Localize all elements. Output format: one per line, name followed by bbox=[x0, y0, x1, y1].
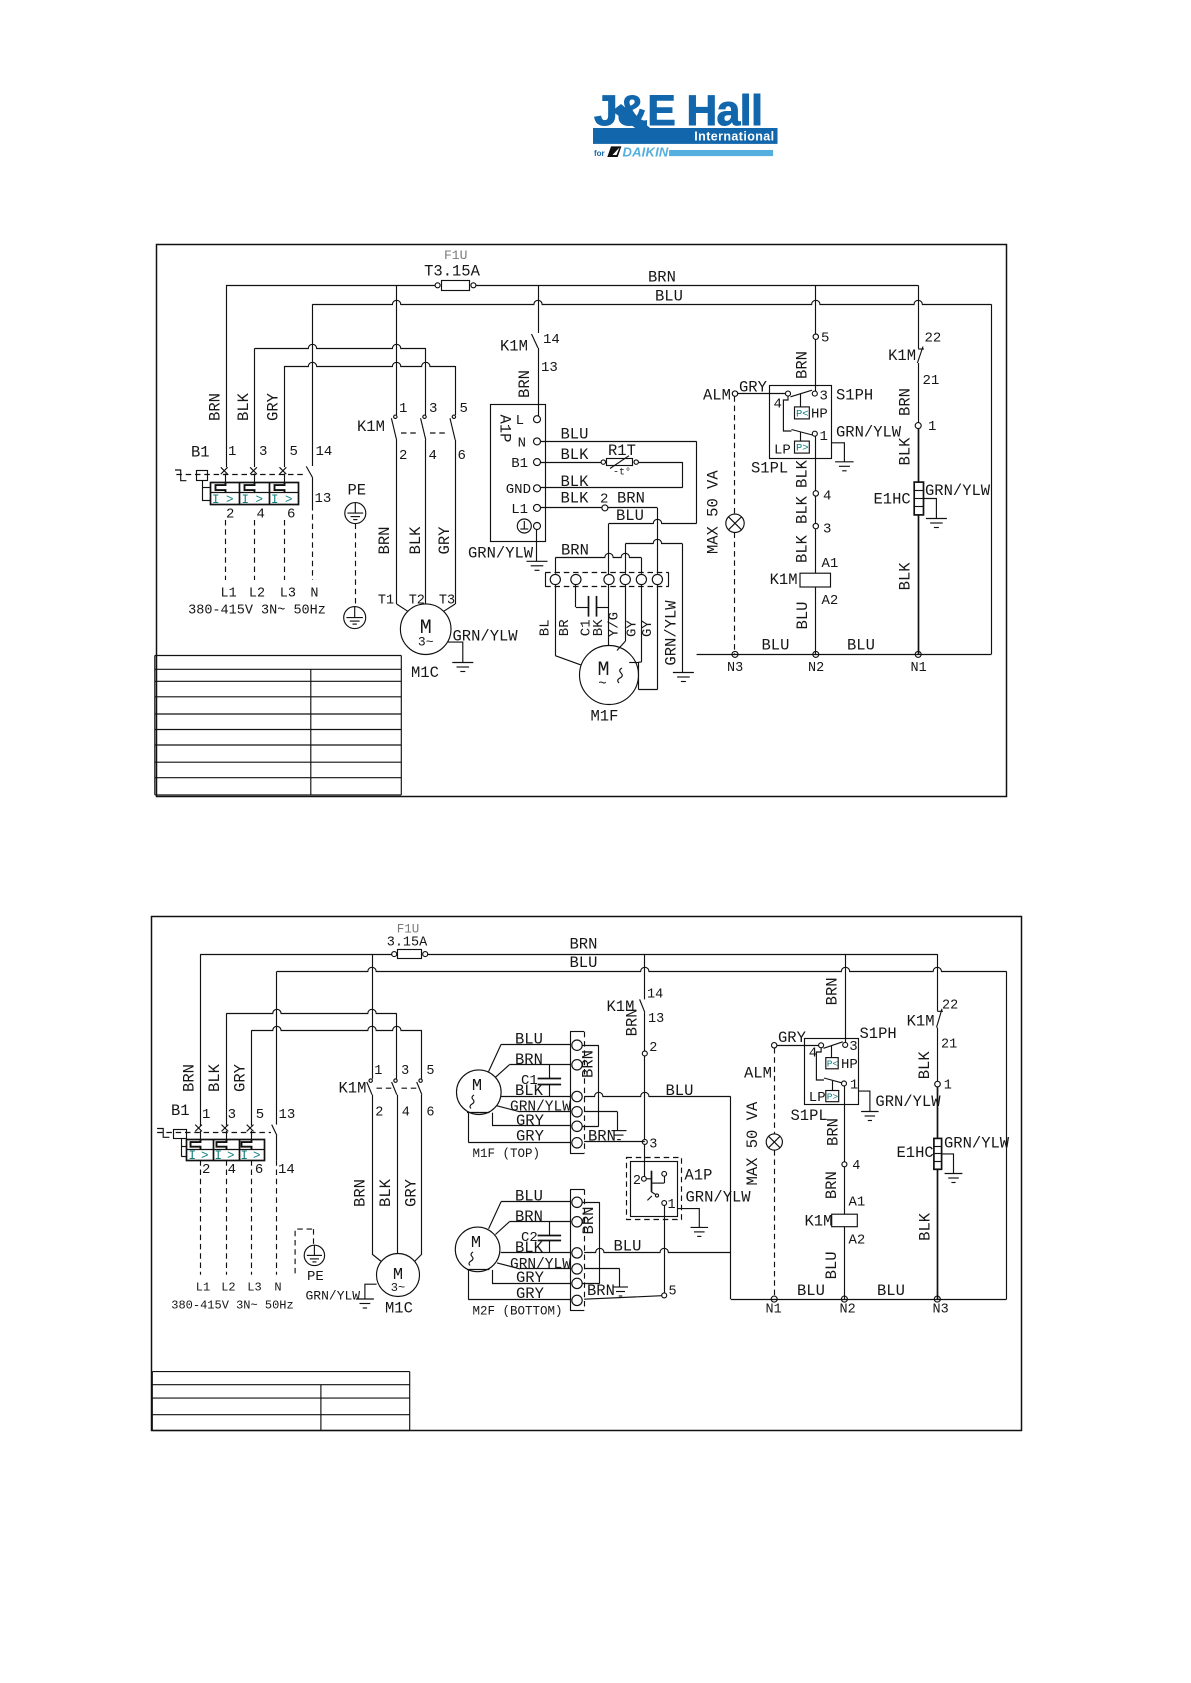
wire GRY to M1C T3 bbox=[455, 440, 457, 604]
wire BLU bottom neutral bus bbox=[697, 637, 992, 655]
ground fan M1F earth symbol bbox=[612, 1131, 627, 1140]
svg-text:3: 3 bbox=[649, 1138, 657, 1153]
svg-text:6: 6 bbox=[287, 507, 295, 523]
svg-text:BLK: BLK bbox=[917, 1212, 935, 1241]
wire BLU junction to bottom bus bbox=[730, 1097, 732, 1300]
wire GRN/YLW heater earth bbox=[924, 482, 991, 519]
ground S1PH earth symbol bbox=[861, 1112, 879, 1121]
svg-text:ALM: ALM bbox=[703, 387, 731, 405]
svg-text:I: I bbox=[242, 493, 250, 507]
svg-text:P>: P> bbox=[827, 1092, 839, 1103]
svg-text:K1M: K1M bbox=[888, 347, 916, 365]
node N3 bbox=[933, 1296, 949, 1317]
svg-text:BRN: BRN bbox=[580, 1207, 598, 1235]
svg-text:13: 13 bbox=[315, 491, 332, 507]
svg-text:I: I bbox=[212, 493, 220, 507]
svg-text:BLK: BLK bbox=[561, 490, 590, 508]
svg-text:P>: P> bbox=[796, 443, 809, 455]
svg-text:BRN: BRN bbox=[352, 1179, 370, 1207]
svg-text:>: > bbox=[253, 1149, 261, 1163]
svg-text:3: 3 bbox=[401, 1064, 409, 1079]
svg-text:6: 6 bbox=[458, 448, 466, 464]
wire BLK contact 3 to coil A1 bbox=[794, 529, 839, 573]
wire BRN fan lead 6 to node 5 bbox=[584, 1282, 662, 1300]
wire BLK to heater E1HC bbox=[937, 1087, 939, 1139]
pin L1 of A1P bbox=[511, 502, 540, 518]
svg-text:BLU: BLU bbox=[877, 1282, 905, 1300]
svg-text:T1: T1 bbox=[378, 594, 394, 609]
wire BLK heater to N1 bbox=[897, 515, 919, 655]
coil K1M contactor coil bbox=[770, 571, 831, 589]
svg-text:Y/G: Y/G bbox=[607, 612, 623, 637]
svg-text:K1M: K1M bbox=[805, 1213, 833, 1231]
svg-text:BRN: BRN bbox=[561, 542, 589, 560]
wire BRN fan lead 2 bbox=[495, 1051, 570, 1077]
svg-text:BLK: BLK bbox=[206, 1063, 224, 1092]
wire GRN/YLW A1P earth bbox=[468, 530, 537, 563]
svg-text:N3: N3 bbox=[933, 1303, 949, 1318]
svg-text:A1P: A1P bbox=[685, 1167, 713, 1185]
svg-text:1: 1 bbox=[928, 419, 936, 435]
svg-text:R1T: R1T bbox=[608, 442, 636, 460]
svg-text:BLK: BLK bbox=[235, 392, 253, 421]
svg-text:3: 3 bbox=[228, 1107, 236, 1123]
svg-text:BR: BR bbox=[557, 619, 573, 636]
svg-text:GRN/YLW: GRN/YLW bbox=[453, 628, 519, 646]
wire BL fan lead 1 bbox=[538, 585, 582, 666]
wire BLU from A1P N bbox=[541, 426, 697, 575]
svg-text:MAX 50 VA: MAX 50 VA bbox=[744, 1101, 762, 1185]
svg-text:S1PL: S1PL bbox=[751, 460, 788, 478]
svg-text:L1: L1 bbox=[511, 502, 528, 518]
svg-text:3: 3 bbox=[849, 1039, 857, 1055]
svg-text:-t°: -t° bbox=[613, 467, 631, 479]
svg-text:BLK: BLK bbox=[561, 473, 590, 491]
svg-text:N2: N2 bbox=[808, 661, 824, 676]
wire BLU right side drop bbox=[1006, 971, 1008, 1299]
svg-text:K1M: K1M bbox=[339, 1080, 367, 1098]
svg-text:GRN/YLW: GRN/YLW bbox=[944, 1135, 1010, 1153]
node L1 L2 L3 N supply terminals bbox=[188, 587, 326, 619]
svg-text:1: 1 bbox=[399, 401, 407, 417]
svg-text:BLU: BLU bbox=[570, 954, 598, 972]
wire BLK contacts 4-3 bbox=[794, 495, 816, 524]
capacitor C1 bbox=[576, 585, 610, 637]
node 2 aux chain bbox=[642, 1041, 657, 1056]
ground heater earth symbol bbox=[945, 1174, 963, 1183]
svg-text:5: 5 bbox=[669, 1285, 677, 1300]
svg-text:BRN: BRN bbox=[515, 1208, 543, 1226]
svg-text:BRN: BRN bbox=[794, 351, 812, 379]
svg-text:GY: GY bbox=[640, 620, 656, 637]
wire BRN S1PL pin 1 to node 4 bbox=[825, 1086, 845, 1162]
fuse F1U value T3.15A bbox=[424, 248, 481, 291]
svg-text:BLU: BLU bbox=[655, 288, 683, 306]
svg-text:BRN: BRN bbox=[587, 1282, 615, 1300]
pressure switch S1PH S1PL box bbox=[791, 1025, 897, 1125]
svg-text:N: N bbox=[310, 587, 318, 602]
svg-text:13: 13 bbox=[648, 1012, 664, 1027]
wire BLU right side drop bbox=[991, 304, 993, 654]
contactor K1M aux NC contact 22-21 bbox=[888, 285, 941, 422]
svg-text:22: 22 bbox=[942, 999, 958, 1014]
wire GRY fan lead 6 bbox=[468, 1270, 570, 1303]
svg-text:BLK: BLK bbox=[407, 526, 425, 555]
svg-text:1: 1 bbox=[202, 1107, 210, 1123]
svg-text:BRN: BRN bbox=[515, 1051, 543, 1069]
wire BRN S1PH to BRN bus bbox=[824, 954, 846, 1042]
svg-text:BLK: BLK bbox=[897, 562, 915, 591]
breaker B1 thermal overload box bbox=[210, 482, 299, 507]
ground A1P earth symbol bbox=[527, 561, 548, 570]
svg-text:BRN: BRN bbox=[516, 370, 534, 398]
wire A1P pin 1 to node 5 bbox=[664, 1205, 666, 1293]
svg-text:1: 1 bbox=[820, 429, 828, 445]
wire BLU fan lead 1 bbox=[489, 1188, 570, 1229]
wire BRN link fan terminals 1-5 bbox=[579, 1045, 598, 1126]
svg-text:5: 5 bbox=[256, 1107, 264, 1123]
capacitor C2 bbox=[521, 1222, 561, 1253]
wire BRN fan lead 6 to node 3 bbox=[584, 1127, 645, 1145]
svg-text:BRN: BRN bbox=[823, 1171, 841, 1199]
svg-text:GRY: GRY bbox=[778, 1029, 807, 1047]
wire GRN/YLW fan earth bbox=[584, 1269, 620, 1288]
breaker B1 main contacts bbox=[176, 444, 306, 523]
pin B1 of A1P bbox=[511, 456, 540, 472]
contact LP low pressure, pin 1 bbox=[774, 396, 828, 458]
svg-text:BRN: BRN bbox=[376, 527, 394, 555]
node 4 coil circuit bbox=[842, 1159, 861, 1174]
svg-text:B1: B1 bbox=[171, 1102, 190, 1120]
ground M1C earth symbol bbox=[356, 1299, 374, 1308]
svg-text:6: 6 bbox=[255, 1162, 263, 1178]
wire BLK fan lead 3 bbox=[501, 1239, 570, 1257]
contactor K1M aux contact 14-13 bbox=[607, 954, 665, 1051]
svg-text:>: > bbox=[226, 493, 234, 507]
node ALM alarm output bbox=[744, 1043, 777, 1083]
svg-text:BRN: BRN bbox=[570, 936, 598, 954]
thermistor R1T bbox=[541, 442, 683, 488]
svg-text:BLU: BLU bbox=[797, 1282, 825, 1300]
breaker B1 aux contact 13-14 bbox=[272, 1107, 296, 1178]
node pin 1 heater circuit bbox=[915, 419, 936, 435]
svg-text:>: > bbox=[256, 493, 264, 507]
svg-text:K1M: K1M bbox=[500, 338, 528, 356]
wire BRN link fan terminals 1-5 bbox=[555, 542, 641, 574]
svg-text:HP: HP bbox=[841, 1057, 858, 1073]
ground fan earth symbol bbox=[673, 673, 694, 682]
motor M1F fan top bbox=[457, 1070, 541, 1161]
svg-text:GRN/YLW: GRN/YLW bbox=[836, 424, 902, 442]
svg-text:L1: L1 bbox=[196, 1281, 210, 1295]
wire BLK phase L2 feeder bbox=[226, 1014, 228, 1126]
wire GRN/YLW M1C earth bbox=[448, 628, 519, 663]
svg-text:BRN: BRN bbox=[181, 1064, 199, 1092]
wire GRY phase L3 feeder bbox=[284, 366, 286, 467]
pin 1 of A1P bbox=[662, 1198, 676, 1213]
wire BRN node 4 to coil A1 bbox=[823, 1167, 865, 1214]
wire GRY alarm bbox=[738, 379, 786, 397]
svg-text:22: 22 bbox=[925, 331, 942, 347]
svg-text:BLK: BLK bbox=[794, 534, 812, 563]
wire BLK phase L2 feeder bbox=[254, 348, 256, 467]
svg-text:2: 2 bbox=[202, 1162, 210, 1178]
svg-text:13: 13 bbox=[279, 1107, 296, 1123]
svg-text:21: 21 bbox=[923, 373, 940, 389]
svg-text:5: 5 bbox=[460, 401, 468, 417]
breaker B1 reset mechanism bbox=[175, 470, 210, 501]
wire GRY to M1C bbox=[403, 1095, 422, 1262]
svg-text:GRY: GRY bbox=[232, 1063, 250, 1092]
wire BRN link fan terminals 1-5 bbox=[580, 1202, 600, 1283]
terminal strip fan M2F bbox=[570, 1189, 585, 1310]
svg-text:>: > bbox=[227, 1149, 235, 1163]
svg-text:14: 14 bbox=[647, 988, 663, 1003]
node N3 bbox=[727, 651, 743, 676]
svg-text:N1: N1 bbox=[766, 1303, 782, 1318]
svg-text:S1PH: S1PH bbox=[836, 387, 873, 405]
svg-text:BRN: BRN bbox=[824, 977, 842, 1005]
pin earth of A1P bbox=[517, 519, 540, 533]
svg-text:L3: L3 bbox=[247, 1281, 261, 1295]
svg-text:ALM: ALM bbox=[744, 1065, 772, 1083]
wire alarm dashed lamp to N3 bbox=[734, 533, 736, 655]
svg-text:GRY: GRY bbox=[265, 392, 283, 421]
svg-text:1: 1 bbox=[944, 1079, 952, 1094]
wire GY fan lead 5 bbox=[624, 585, 641, 663]
wire GRN/YLW heater earth bbox=[942, 1135, 1010, 1174]
svg-text:GRN/YLW: GRN/YLW bbox=[925, 482, 991, 500]
wire GRN/YLW A1P earth bbox=[677, 1189, 751, 1228]
contact LP low pressure, pin 1 bbox=[809, 1048, 859, 1106]
svg-text:GRN/YLW: GRN/YLW bbox=[468, 545, 534, 563]
svg-text:BRN: BRN bbox=[207, 393, 225, 421]
pressure switch S1PH S1PL box bbox=[751, 386, 873, 478]
svg-text:M1C: M1C bbox=[385, 1300, 413, 1318]
svg-text:4: 4 bbox=[402, 1106, 410, 1121]
terminal strip fan M1F bbox=[570, 1032, 585, 1154]
wire BRN to M1C T1 bbox=[396, 440, 398, 604]
svg-text:4: 4 bbox=[852, 1159, 860, 1174]
node contact 3 bbox=[813, 522, 831, 538]
svg-text:I: I bbox=[189, 1149, 197, 1163]
capacitor C1 bbox=[521, 1065, 561, 1097]
svg-text:MAX 50 VA: MAX 50 VA bbox=[704, 470, 722, 554]
svg-text:A1: A1 bbox=[822, 556, 839, 572]
wire BRN phase L1 feeder bbox=[200, 954, 202, 1126]
wire GRY alarm bbox=[777, 1029, 819, 1047]
wire BLU coil A2 to N2 bbox=[794, 587, 838, 654]
svg-text:BLK: BLK bbox=[794, 459, 812, 488]
svg-text:E1HC: E1HC bbox=[897, 1144, 934, 1162]
svg-text:BLU: BLU bbox=[666, 1082, 694, 1100]
breaker B1 thermal overload box bbox=[187, 1139, 265, 1163]
node N1 bbox=[911, 651, 927, 676]
svg-text:F1U: F1U bbox=[397, 923, 420, 937]
motor M2F fan bottom bbox=[455, 1227, 562, 1318]
node 5 fan chain bbox=[662, 1285, 677, 1300]
wire neutral to B1 aux contact 13 bbox=[276, 971, 278, 1124]
svg-text:BRN: BRN bbox=[897, 388, 915, 416]
wire BLU fan neutral to junction bbox=[584, 1082, 731, 1100]
ground A1P earth symbol bbox=[691, 1227, 709, 1236]
motor M1F fan bbox=[580, 646, 639, 726]
wire BLU bottom neutral bus bbox=[731, 1282, 1007, 1300]
svg-text:GRY: GRY bbox=[516, 1285, 545, 1303]
svg-text:M1C: M1C bbox=[411, 664, 439, 682]
svg-text:M1F (TOP): M1F (TOP) bbox=[473, 1147, 541, 1161]
svg-text:BRN: BRN bbox=[624, 1008, 642, 1036]
svg-text:PE: PE bbox=[348, 482, 367, 500]
svg-text:P<: P< bbox=[796, 408, 809, 420]
svg-text:3~: 3~ bbox=[418, 635, 434, 650]
svg-text:14: 14 bbox=[278, 1162, 295, 1178]
svg-text:for: for bbox=[594, 149, 605, 158]
wire BRN fan lead 2 bbox=[495, 1208, 570, 1235]
svg-text:L2: L2 bbox=[249, 587, 265, 602]
wire neutral to B1 aux contact 14 bbox=[312, 304, 314, 466]
svg-text:3: 3 bbox=[820, 389, 828, 405]
svg-text:GRN/YLW: GRN/YLW bbox=[875, 1093, 941, 1111]
svg-text:4: 4 bbox=[429, 448, 437, 464]
lamp alarm MAX 50 VA bbox=[744, 1101, 782, 1185]
svg-text:4: 4 bbox=[774, 397, 782, 413]
wire supply dashed leads L1 L2 L3 N bbox=[226, 505, 313, 580]
svg-text:5: 5 bbox=[290, 444, 298, 460]
pin L of A1P bbox=[516, 413, 541, 429]
lamp alarm MAX 50 VA bbox=[704, 470, 744, 554]
svg-text:I: I bbox=[241, 1149, 249, 1163]
pin 2 of A1P bbox=[633, 1144, 646, 1189]
svg-text:3: 3 bbox=[823, 522, 831, 538]
svg-text:P<: P< bbox=[827, 1058, 839, 1069]
svg-text:380-415V 3N~ 50Hz: 380-415V 3N~ 50Hz bbox=[188, 604, 326, 619]
coil K1M contactor coil bbox=[805, 1213, 858, 1231]
breaker B1 reset mechanism bbox=[157, 1129, 187, 1157]
node N2 bbox=[808, 651, 824, 676]
ground S1PH earth symbol bbox=[835, 462, 854, 471]
node N1 bbox=[766, 1296, 782, 1317]
wire BLU neutral bus bbox=[313, 300, 992, 304]
svg-text:DAIKIN: DAIKIN bbox=[623, 145, 669, 160]
svg-text:A1P: A1P bbox=[496, 415, 514, 443]
wire alarm dashed to lamp bbox=[774, 1048, 776, 1134]
svg-text:BRN: BRN bbox=[617, 490, 645, 508]
svg-text:GRN/YLW: GRN/YLW bbox=[663, 600, 681, 666]
wire BLU fan neutral to junction bbox=[584, 1238, 731, 1256]
svg-text:K1M: K1M bbox=[357, 418, 385, 436]
svg-text:1: 1 bbox=[850, 1078, 858, 1094]
wire GRN/YLW fan lead 4 bbox=[497, 1100, 571, 1116]
motor M1C compressor bbox=[377, 1254, 420, 1318]
contactor K1M aux contact 13-14 bbox=[500, 285, 560, 415]
svg-text:K1M: K1M bbox=[770, 571, 798, 589]
svg-text:2: 2 bbox=[226, 507, 234, 523]
wire aux chain 2 to 3 bbox=[644, 1056, 646, 1139]
wire alarm dashed lamp to N1 bbox=[774, 1150, 776, 1299]
svg-text:3.15A: 3.15A bbox=[387, 936, 428, 951]
wire alarm dashed to lamp bbox=[734, 396, 736, 514]
wire BRN S1PH to BRN bus, pin 5 bbox=[794, 285, 830, 391]
svg-text:N: N bbox=[518, 435, 526, 451]
svg-text:L1: L1 bbox=[220, 587, 236, 602]
svg-text:5: 5 bbox=[821, 331, 829, 347]
svg-text:BRN: BRN bbox=[648, 269, 676, 287]
wire BLK from A1P GND bbox=[541, 473, 683, 491]
diagram 1 border frame bbox=[157, 245, 1007, 797]
svg-text:LP: LP bbox=[809, 1090, 826, 1106]
contactor K1M main contacts 1-2 3-4 5-6 bbox=[357, 285, 468, 464]
svg-text:N3: N3 bbox=[727, 661, 743, 676]
svg-text:BLK: BLK bbox=[794, 495, 812, 524]
svg-text:PE: PE bbox=[307, 1269, 324, 1285]
ground PE symbol bbox=[344, 482, 366, 629]
svg-text:GND: GND bbox=[506, 482, 531, 498]
ground heater earth symbol bbox=[926, 519, 947, 528]
svg-text:3~: 3~ bbox=[391, 1281, 405, 1295]
svg-text:BK: BK bbox=[591, 619, 607, 636]
svg-text:LP: LP bbox=[774, 443, 791, 459]
svg-text:BLU: BLU bbox=[561, 426, 589, 444]
svg-text:M: M bbox=[472, 1077, 482, 1096]
svg-text:BRN: BRN bbox=[579, 1050, 597, 1078]
svg-text:BLK: BLK bbox=[515, 1239, 544, 1257]
wire GRN/YLW fan earth terminal 4 bbox=[625, 539, 682, 672]
svg-text:1: 1 bbox=[228, 444, 236, 460]
svg-text:>: > bbox=[285, 493, 293, 507]
svg-text:380-415V 3N~ 50Hz: 380-415V 3N~ 50Hz bbox=[171, 1299, 293, 1313]
node L1 L2 L3 N supply terminals bbox=[171, 1281, 293, 1313]
svg-text:GRY: GRY bbox=[403, 1178, 421, 1207]
svg-text:BLU: BLU bbox=[616, 507, 644, 525]
svg-text:B1: B1 bbox=[511, 456, 528, 472]
svg-text:BLU: BLU bbox=[762, 637, 790, 655]
wire BRN to M1C bbox=[352, 1095, 382, 1262]
svg-text:4: 4 bbox=[228, 1162, 236, 1178]
svg-text:N: N bbox=[274, 1281, 281, 1295]
svg-text:International: International bbox=[694, 130, 774, 144]
ground PE symbol bbox=[295, 1229, 324, 1285]
svg-text:GRY: GRY bbox=[436, 526, 454, 555]
svg-text:BLK: BLK bbox=[561, 446, 590, 464]
protector A1P fan thermal box bbox=[627, 1158, 713, 1220]
wire GRY fan lead 6 bbox=[468, 1113, 570, 1146]
node contact 4 bbox=[813, 489, 831, 505]
svg-text:BLU: BLU bbox=[515, 1188, 543, 1206]
svg-text:BLK: BLK bbox=[515, 1082, 544, 1100]
svg-text:M1F: M1F bbox=[591, 708, 619, 726]
svg-text:BLK: BLK bbox=[377, 1178, 395, 1207]
wire BLU fan lead 1 bbox=[489, 1031, 570, 1072]
svg-text:GRN/YLW: GRN/YLW bbox=[686, 1189, 752, 1207]
svg-text:5: 5 bbox=[426, 1064, 434, 1079]
svg-text:6: 6 bbox=[426, 1106, 434, 1121]
svg-text:E1HC: E1HC bbox=[874, 491, 911, 509]
ground fan M2F earth symbol bbox=[613, 1287, 628, 1296]
svg-text:I: I bbox=[271, 493, 279, 507]
logo for DAIKIN bbox=[594, 145, 773, 160]
wire BRN control bus bbox=[201, 954, 392, 956]
wire BLK to M1C T2 bbox=[425, 440, 427, 604]
svg-text:2: 2 bbox=[649, 1041, 657, 1056]
svg-text:N2: N2 bbox=[840, 1303, 856, 1318]
wire BLK to M1C bbox=[377, 1095, 398, 1254]
node pin 1 heater circuit bbox=[935, 1079, 952, 1094]
wire GY fan lead 6 bbox=[639, 585, 658, 690]
wire GRN/YLW fan earth bbox=[584, 1112, 617, 1131]
svg-text:GY: GY bbox=[624, 620, 640, 637]
svg-text:BLU: BLU bbox=[823, 1251, 841, 1279]
